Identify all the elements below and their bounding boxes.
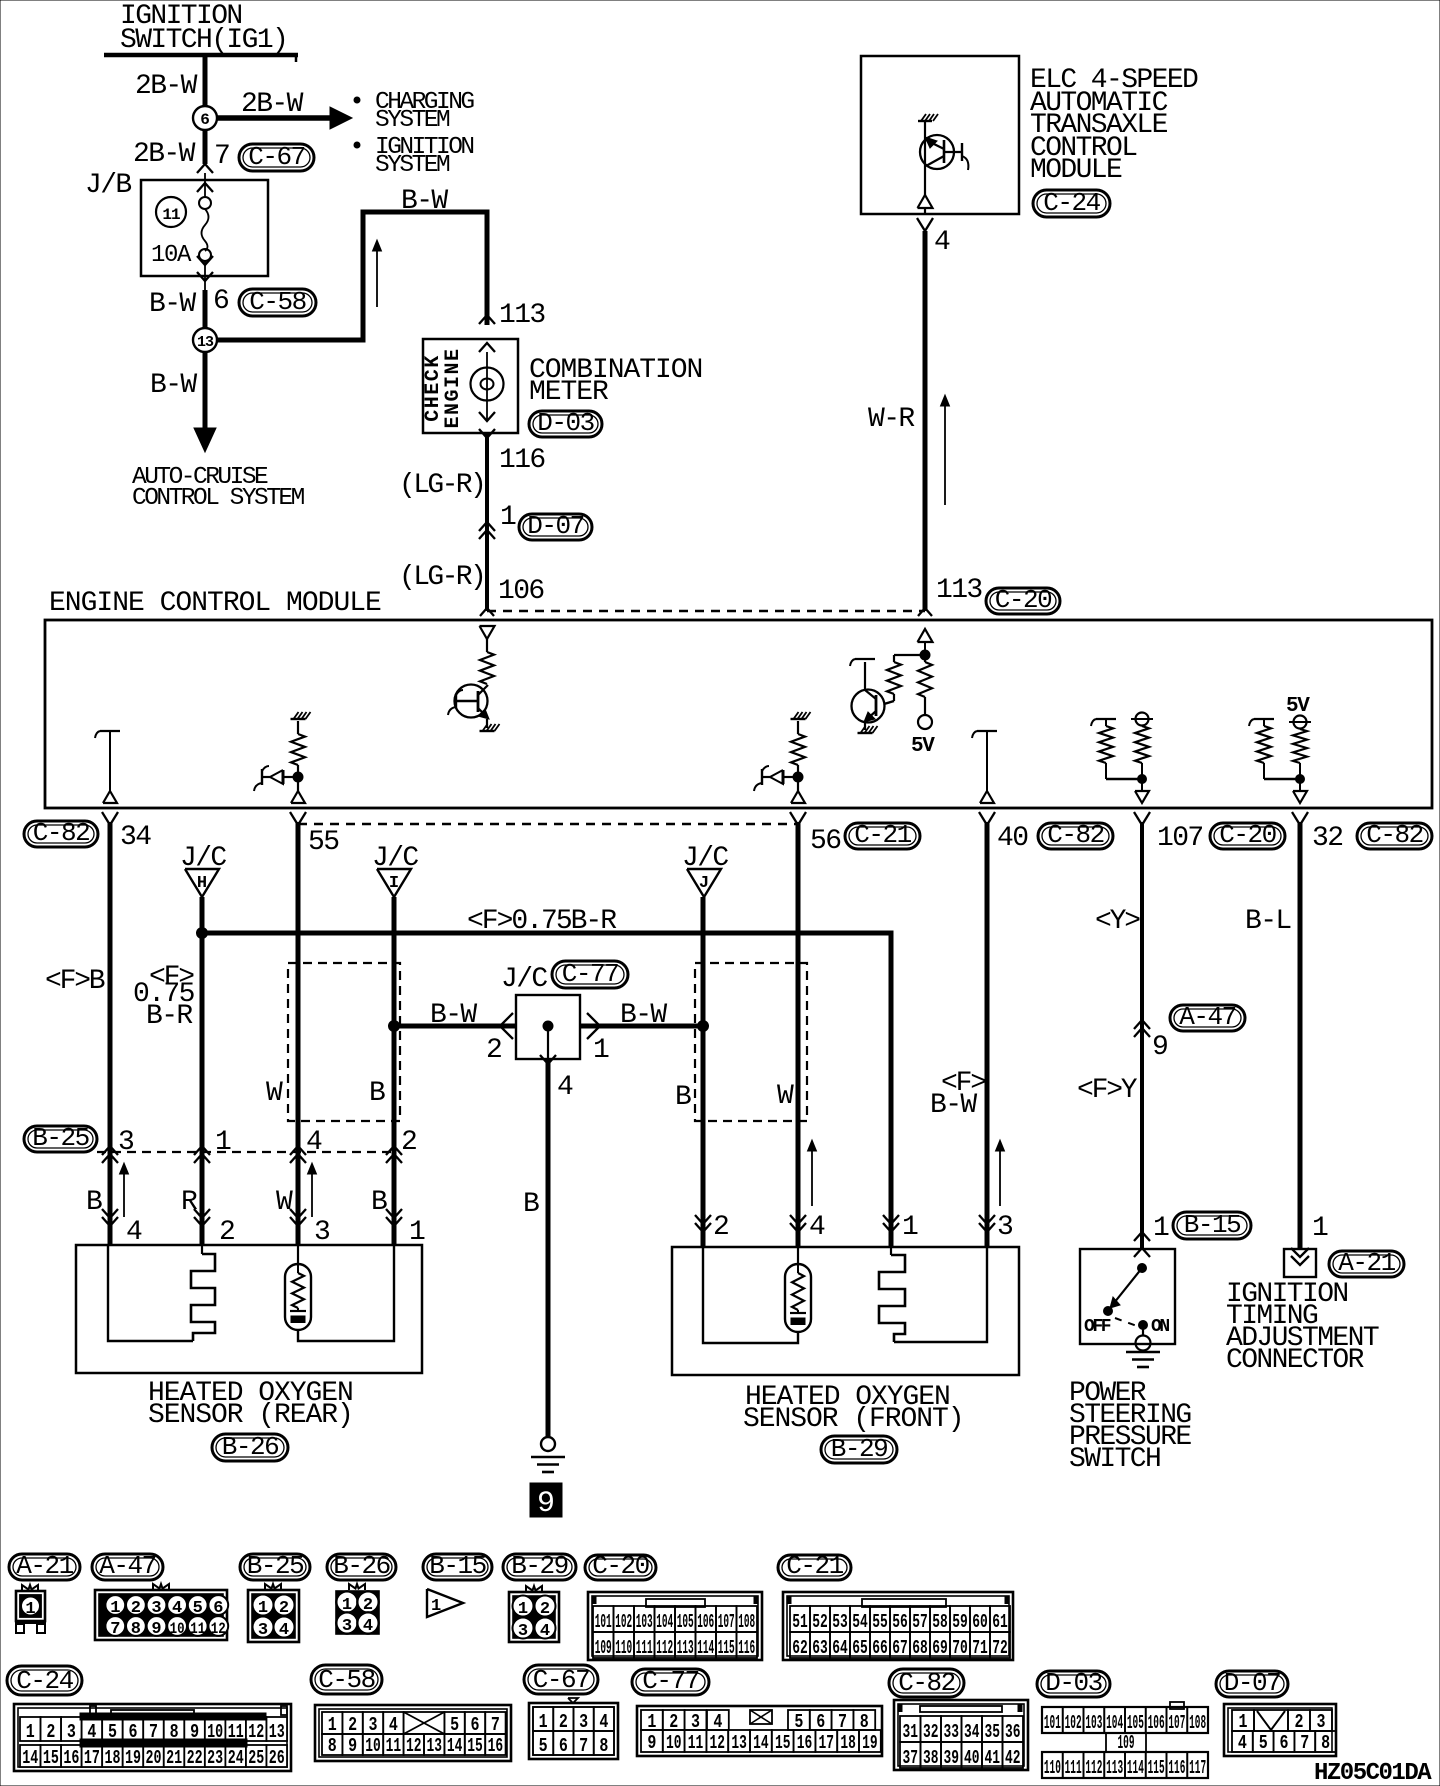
svg-text:19: 19 <box>125 1747 141 1769</box>
connector table A-21 <box>9 1554 80 1580</box>
svg-text:109: 109 <box>1118 1732 1135 1754</box>
connector table C-24 <box>7 1666 82 1695</box>
wire W from ECM 55 to rear sensor pin 3 <box>296 822 301 1245</box>
ECM pin 34 <box>102 812 110 825</box>
connector table C-82 <box>889 1669 964 1697</box>
svg-text:61: 61 <box>992 1611 1008 1633</box>
svg-text:53: 53 <box>832 1611 848 1633</box>
heated oxygen sensor rear box <box>76 1245 422 1373</box>
svg-text:39: 39 <box>943 1747 959 1769</box>
ECM pin 107 <box>1134 812 1142 825</box>
svg-text:3: 3 <box>258 1621 268 1640</box>
svg-text:(LG-R): (LG-R) <box>399 562 484 593</box>
svg-text:C-20: C-20 <box>1219 820 1275 850</box>
svg-text:C-21: C-21 <box>786 1551 843 1581</box>
svg-text:54: 54 <box>852 1611 868 1633</box>
svg-text:104: 104 <box>1106 1712 1123 1734</box>
wire B-W from junction 13 to combination meter <box>217 212 487 340</box>
connector table D-03 <box>1037 1671 1110 1697</box>
svg-text:64: 64 <box>832 1637 848 1659</box>
svg-text:2: 2 <box>486 1035 501 1066</box>
svg-text:C-82: C-82 <box>1366 820 1422 850</box>
svg-text:117: 117 <box>1189 1757 1206 1779</box>
connector B-26 label <box>212 1434 288 1461</box>
svg-text:105: 105 <box>677 1611 694 1633</box>
svg-text:2: 2 <box>219 1217 234 1248</box>
svg-text:56: 56 <box>810 826 840 857</box>
svg-text:102: 102 <box>1065 1712 1082 1734</box>
svg-text:4: 4 <box>809 1212 825 1243</box>
svg-text:26: 26 <box>269 1747 285 1769</box>
svg-text:10: 10 <box>365 1735 381 1757</box>
svg-text:6: 6 <box>816 1711 825 1733</box>
svg-text:36: 36 <box>1005 1721 1021 1743</box>
svg-text:1: 1 <box>409 1217 425 1248</box>
ignition timing adjustment connector terminal <box>1284 1249 1316 1277</box>
svg-text:38: 38 <box>923 1747 939 1769</box>
svg-text:9: 9 <box>151 1620 161 1639</box>
svg-text:C-67: C-67 <box>248 142 304 172</box>
svg-text:13: 13 <box>426 1735 442 1757</box>
connector D-03 label <box>529 411 602 437</box>
svg-text:3: 3 <box>314 1217 330 1248</box>
svg-text:58: 58 <box>932 1611 948 1633</box>
svg-text:106: 106 <box>697 1611 714 1633</box>
svg-text:16: 16 <box>488 1735 504 1757</box>
svg-text:10: 10 <box>666 1732 682 1754</box>
svg-text:6: 6 <box>1280 1732 1289 1754</box>
dashed harness line pins 55-56 <box>298 823 798 826</box>
svg-text:1: 1 <box>518 1600 528 1619</box>
ECM internal terminal at pin 40 <box>977 730 997 732</box>
svg-text:C-77: C-77 <box>562 959 618 989</box>
svg-text:1: 1 <box>500 502 516 533</box>
rear sensor heater element <box>201 1245 203 1254</box>
svg-text:116: 116 <box>738 1637 755 1659</box>
svg-text:W-R: W-R <box>868 404 915 435</box>
svg-text:<Y>: <Y> <box>1095 906 1140 937</box>
check engine lamp <box>486 352 488 420</box>
svg-text:C-58: C-58 <box>249 287 305 317</box>
svg-text:7: 7 <box>110 1620 120 1639</box>
svg-text:B-29: B-29 <box>831 1434 887 1464</box>
svg-text:116: 116 <box>499 445 545 476</box>
svg-text:4: 4 <box>1238 1732 1247 1754</box>
svg-text:3: 3 <box>118 1127 134 1158</box>
svg-text:25: 25 <box>248 1747 264 1769</box>
svg-text:3: 3 <box>579 1711 588 1733</box>
svg-text:C-58: C-58 <box>318 1665 374 1695</box>
svg-text:C-77: C-77 <box>642 1666 698 1696</box>
svg-text:SWITCH: SWITCH <box>1069 1444 1160 1475</box>
svg-text:12: 12 <box>211 1620 226 1638</box>
connector table B-15 <box>423 1554 492 1580</box>
connector table A-47 <box>92 1554 163 1580</box>
svg-text:I: I <box>389 874 399 893</box>
svg-text:17: 17 <box>819 1732 835 1754</box>
junction circle 13 <box>193 328 217 352</box>
svg-text:108: 108 <box>738 1611 755 1633</box>
svg-text:11: 11 <box>162 206 180 224</box>
svg-text:15: 15 <box>775 1732 791 1754</box>
svg-text:106: 106 <box>1148 1712 1165 1734</box>
svg-text:J: J <box>699 874 709 893</box>
svg-text:13: 13 <box>269 1721 285 1743</box>
wire branch arrow to charging/ignition system <box>217 115 330 121</box>
svg-text:103: 103 <box>1085 1712 1102 1734</box>
ECM pin 40 <box>979 812 987 825</box>
svg-text:7: 7 <box>1300 1732 1309 1754</box>
wire B from C-77 pin 4 to ground <box>540 1055 556 1064</box>
wire 2B-W to junction block <box>203 130 208 164</box>
svg-text:101: 101 <box>1044 1712 1061 1734</box>
svg-text:<F>0.75B-R: <F>0.75B-R <box>467 906 617 937</box>
connector B-15 label <box>1173 1212 1251 1239</box>
svg-text:107: 107 <box>1157 823 1203 854</box>
connector table C-20 <box>585 1555 656 1580</box>
svg-text:B-W: B-W <box>150 370 197 401</box>
svg-text:SWITCH(IG1): SWITCH(IG1) <box>120 25 287 56</box>
connector table D-07 <box>1216 1671 1288 1697</box>
svg-text:4: 4 <box>306 1127 322 1158</box>
svg-text:15: 15 <box>43 1747 59 1769</box>
svg-text:37: 37 <box>902 1747 918 1769</box>
svg-text:60: 60 <box>972 1611 988 1633</box>
svg-text:2B-W: 2B-W <box>135 71 198 102</box>
svg-text:2: 2 <box>713 1212 728 1243</box>
svg-text:12: 12 <box>248 1721 264 1743</box>
svg-text:B-25: B-25 <box>247 1551 303 1581</box>
svg-text:21: 21 <box>166 1747 182 1769</box>
power steering pressure switch box <box>1080 1249 1175 1344</box>
svg-text:9: 9 <box>647 1732 656 1754</box>
svg-text:34: 34 <box>964 1721 980 1743</box>
svg-text:32: 32 <box>923 1721 939 1743</box>
ground G9 <box>541 1437 555 1451</box>
svg-text:R: R <box>181 1187 198 1218</box>
svg-text:4: 4 <box>599 1711 608 1733</box>
svg-text:1: 1 <box>1239 1711 1248 1733</box>
svg-text:2: 2 <box>348 1714 357 1736</box>
svg-text:B-W: B-W <box>401 186 448 217</box>
connector table C-77 <box>632 1669 709 1695</box>
svg-text:59: 59 <box>952 1611 968 1633</box>
svg-text:9: 9 <box>1152 1032 1167 1063</box>
svg-text:65: 65 <box>852 1637 868 1659</box>
svg-text:112: 112 <box>1085 1757 1102 1779</box>
svg-text:B: B <box>371 1187 387 1218</box>
svg-text:B-15: B-15 <box>429 1551 485 1581</box>
ECM internal transistor at pin 106 <box>480 626 495 639</box>
svg-text:<F>Y: <F>Y <box>1077 1075 1138 1106</box>
wire F B from ECM 34 to rear sensor pin 4 <box>108 822 113 1245</box>
svg-text:19: 19 <box>862 1732 878 1754</box>
ECM pin 55 <box>290 812 298 825</box>
svg-text:1: 1 <box>328 1714 337 1736</box>
svg-text:A-47: A-47 <box>1179 1002 1235 1032</box>
svg-text:16: 16 <box>797 1732 813 1754</box>
svg-text:B: B <box>369 1078 385 1109</box>
svg-text:B: B <box>523 1189 539 1220</box>
svg-text:11: 11 <box>386 1735 402 1757</box>
svg-text:C-82: C-82 <box>898 1668 954 1698</box>
svg-text:2: 2 <box>401 1127 416 1158</box>
svg-text:18: 18 <box>840 1732 856 1754</box>
svg-text:107: 107 <box>718 1611 735 1633</box>
wire Y from ECM 107 to power steering switch <box>1140 822 1144 1249</box>
ECM internal pull-up resistors at pin 107 <box>1096 718 1116 720</box>
svg-text:C-82: C-82 <box>1047 820 1103 850</box>
svg-text:C-67: C-67 <box>533 1665 589 1695</box>
ECM internal transistor network at pin 113 <box>918 629 933 642</box>
connector table B-29 <box>503 1554 576 1580</box>
svg-text:116: 116 <box>1168 1757 1185 1779</box>
svg-text:4: 4 <box>389 1714 398 1736</box>
svg-text:13: 13 <box>197 334 214 351</box>
svg-text:5: 5 <box>794 1711 803 1733</box>
svg-text:103: 103 <box>636 1611 653 1633</box>
svg-text:104: 104 <box>656 1611 673 1633</box>
svg-text:HZ05C01DA: HZ05C01DA <box>1314 1760 1432 1786</box>
svg-text:57: 57 <box>912 1611 928 1633</box>
svg-text:5: 5 <box>450 1714 459 1736</box>
svg-text:23: 23 <box>207 1747 223 1769</box>
svg-text:72: 72 <box>992 1637 1008 1659</box>
svg-text:4: 4 <box>540 1622 550 1641</box>
wire B from J/C I to rear sensor pin 1 <box>392 897 397 1245</box>
svg-text:J/C: J/C <box>501 964 547 995</box>
svg-text:B: B <box>86 1187 102 1218</box>
svg-text:102: 102 <box>615 1611 632 1633</box>
svg-text:1: 1 <box>1312 1213 1328 1244</box>
svg-text:17: 17 <box>84 1747 100 1769</box>
svg-text:2: 2 <box>540 1600 550 1619</box>
svg-text:115: 115 <box>1148 1757 1165 1779</box>
svg-text:ON: ON <box>1151 1317 1169 1337</box>
ECM pin 56 <box>790 812 798 825</box>
svg-text:6: 6 <box>200 111 210 129</box>
svg-text:5V: 5V <box>1286 695 1310 718</box>
svg-text:3: 3 <box>691 1711 700 1733</box>
svg-text:4: 4 <box>363 1617 373 1636</box>
svg-text:C-20: C-20 <box>592 1551 648 1581</box>
svg-text:B-R: B-R <box>146 1001 193 1032</box>
svg-text:8: 8 <box>599 1735 608 1757</box>
svg-text:7: 7 <box>838 1711 847 1733</box>
svg-text:1: 1 <box>25 1600 35 1619</box>
rear sensor oxygen element <box>297 1245 299 1264</box>
svg-text:110: 110 <box>1044 1757 1061 1779</box>
svg-text:METER: METER <box>529 377 609 408</box>
fuse 11 10A <box>156 197 186 227</box>
svg-text:107: 107 <box>1168 1712 1185 1734</box>
svg-text:7: 7 <box>579 1735 588 1757</box>
wire F 0.75B-R horizontal to front sensor pin 1 <box>202 933 891 1247</box>
svg-text:15: 15 <box>467 1735 483 1757</box>
svg-text:2: 2 <box>559 1711 568 1733</box>
svg-text:113: 113 <box>677 1637 694 1659</box>
svg-text:6: 6 <box>213 286 228 317</box>
wire B from J/C J to front sensor pin 2 <box>701 897 706 1247</box>
svg-text:D-07: D-07 <box>527 511 583 541</box>
svg-text:62: 62 <box>792 1637 808 1659</box>
svg-text:31: 31 <box>902 1721 918 1743</box>
svg-text:51: 51 <box>792 1611 808 1633</box>
svg-text:12: 12 <box>710 1732 726 1754</box>
svg-text:110: 110 <box>615 1637 632 1659</box>
svg-text:108: 108 <box>1189 1712 1206 1734</box>
svg-text:ENGINE CONTROL MODULE: ENGINE CONTROL MODULE <box>49 588 381 619</box>
svg-text:4: 4 <box>126 1217 142 1248</box>
svg-text:D-03: D-03 <box>1045 1668 1101 1698</box>
svg-text:A-47: A-47 <box>99 1551 155 1581</box>
svg-text:32: 32 <box>1312 823 1342 854</box>
svg-text:D-03: D-03 <box>537 408 593 438</box>
svg-text:8: 8 <box>328 1735 337 1757</box>
svg-text:67: 67 <box>892 1637 908 1659</box>
front sensor dashed harness box <box>695 963 807 1121</box>
svg-text:35: 35 <box>984 1721 1000 1743</box>
svg-text:B-L: B-L <box>1245 906 1291 937</box>
wire LG-R from meter to ECM 106 <box>479 429 495 438</box>
svg-text:55: 55 <box>308 827 339 858</box>
dashed line 106-113 <box>487 610 925 613</box>
ECM internal terminal at pin 34 <box>100 730 120 732</box>
svg-text:B-29: B-29 <box>511 1551 567 1581</box>
ECM internal resistor-diode at pin 56 <box>791 718 806 720</box>
svg-text:7: 7 <box>214 141 229 172</box>
wire B-W down to auto-cruise <box>203 352 208 430</box>
rear sensor dashed harness box <box>288 963 400 1121</box>
svg-text:22: 22 <box>187 1747 203 1769</box>
svg-text:63: 63 <box>812 1637 828 1659</box>
connector A-47 label <box>1170 1005 1245 1031</box>
svg-text:7: 7 <box>491 1714 500 1736</box>
svg-text:SYSTEM: SYSTEM <box>375 107 450 134</box>
connector C-24 label <box>1033 190 1110 217</box>
svg-text:C-20: C-20 <box>995 585 1051 615</box>
wire W-R from ELC pin 4 to ECM 113 <box>917 218 925 231</box>
wire F B-W from ECM 40 to front sensor pin 3 <box>985 822 990 1247</box>
svg-text:SYSTEM: SYSTEM <box>375 152 450 179</box>
connector D-07 label <box>519 514 592 540</box>
svg-text:70: 70 <box>952 1637 968 1659</box>
wire 0.75B-R from J/C H <box>200 897 205 1245</box>
svg-text:B-26: B-26 <box>333 1551 389 1581</box>
svg-text:B-W: B-W <box>930 1090 977 1121</box>
svg-text:20: 20 <box>146 1747 162 1769</box>
svg-text:OFF: OFF <box>1084 1317 1111 1337</box>
svg-text:109: 109 <box>595 1637 612 1659</box>
ELC 4-speed automatic transaxle control module box <box>861 56 1019 214</box>
svg-text:8: 8 <box>131 1620 141 1639</box>
svg-text:1: 1 <box>431 1597 441 1616</box>
svg-text:114: 114 <box>1127 1757 1144 1779</box>
svg-text:111: 111 <box>636 1637 653 1659</box>
front sensor heater element <box>890 1247 892 1255</box>
svg-text:1: 1 <box>215 1127 231 1158</box>
combination meter box <box>423 339 518 433</box>
wire B-L from ECM 32 to ignition timing adjustment connector <box>1298 822 1303 1249</box>
svg-text:1: 1 <box>539 1711 548 1733</box>
svg-text:1: 1 <box>593 1035 609 1066</box>
connector A-21 label <box>1329 1251 1404 1277</box>
connector table C-58 <box>311 1665 382 1694</box>
connector table C-67 <box>524 1665 598 1694</box>
svg-text:C-82: C-82 <box>33 818 89 848</box>
svg-text:8: 8 <box>1321 1732 1330 1754</box>
svg-text:1: 1 <box>1153 1213 1169 1244</box>
svg-text:3: 3 <box>67 1721 76 1743</box>
svg-text:114: 114 <box>697 1637 714 1659</box>
svg-text:14: 14 <box>447 1735 463 1757</box>
svg-text:5V: 5V <box>911 735 935 758</box>
svg-text:B-15: B-15 <box>1184 1210 1240 1240</box>
svg-text:CONNECTOR: CONNECTOR <box>1226 1345 1365 1376</box>
svg-text:B-W: B-W <box>620 1000 667 1031</box>
svg-text:3: 3 <box>1317 1711 1326 1733</box>
front sensor oxygen element <box>797 1247 799 1264</box>
svg-text:10A: 10A <box>151 242 192 269</box>
svg-text:1: 1 <box>647 1711 656 1733</box>
svg-text:11: 11 <box>190 1620 205 1638</box>
svg-text:B-26: B-26 <box>222 1432 278 1462</box>
svg-text:42: 42 <box>1005 1747 1021 1769</box>
connector B-29 label <box>821 1436 897 1463</box>
svg-text:18: 18 <box>104 1747 120 1769</box>
svg-text:40: 40 <box>964 1747 980 1769</box>
svg-text:W: W <box>266 1078 283 1109</box>
wire F B-W from ECM 56 to front sensor pin 4 <box>796 822 801 1247</box>
svg-text:<F>B: <F>B <box>45 966 105 997</box>
svg-text:2: 2 <box>279 1599 289 1618</box>
svg-text:W: W <box>276 1187 293 1218</box>
svg-text:101: 101 <box>595 1611 612 1633</box>
svg-text:113: 113 <box>936 575 982 606</box>
svg-text:34: 34 <box>120 822 151 853</box>
connector C-58 label <box>239 289 316 316</box>
svg-text:69: 69 <box>932 1637 948 1659</box>
svg-text:A-21: A-21 <box>1338 1248 1395 1278</box>
svg-text:(LG-R): (LG-R) <box>399 470 484 501</box>
svg-text:111: 111 <box>1065 1757 1082 1779</box>
svg-text:113: 113 <box>499 300 545 331</box>
connector table B-26 <box>327 1554 396 1580</box>
svg-text:3: 3 <box>342 1617 352 1636</box>
svg-text:D-07: D-07 <box>1224 1668 1280 1698</box>
svg-text:J/B: J/B <box>85 170 131 201</box>
svg-text:B-W: B-W <box>430 1000 477 1031</box>
svg-text:2: 2 <box>669 1711 678 1733</box>
svg-text:24: 24 <box>228 1747 244 1769</box>
svg-text:33: 33 <box>943 1721 959 1743</box>
svg-text:71: 71 <box>972 1637 988 1659</box>
svg-text:113: 113 <box>1106 1757 1123 1779</box>
svg-text:C-24: C-24 <box>16 1666 73 1696</box>
svg-text:9: 9 <box>537 1487 555 1521</box>
svg-text:52: 52 <box>812 1611 828 1633</box>
svg-text:9: 9 <box>348 1735 357 1757</box>
svg-text:1: 1 <box>26 1721 35 1743</box>
svg-text:ENGINE: ENGINE <box>442 347 465 428</box>
svg-text:1: 1 <box>258 1599 268 1618</box>
svg-text:12: 12 <box>406 1735 422 1757</box>
svg-text:10: 10 <box>170 1620 185 1638</box>
svg-text:5: 5 <box>1259 1732 1268 1754</box>
svg-text:W: W <box>777 1081 794 1112</box>
svg-text:5: 5 <box>539 1735 548 1757</box>
svg-text:112: 112 <box>656 1637 673 1659</box>
